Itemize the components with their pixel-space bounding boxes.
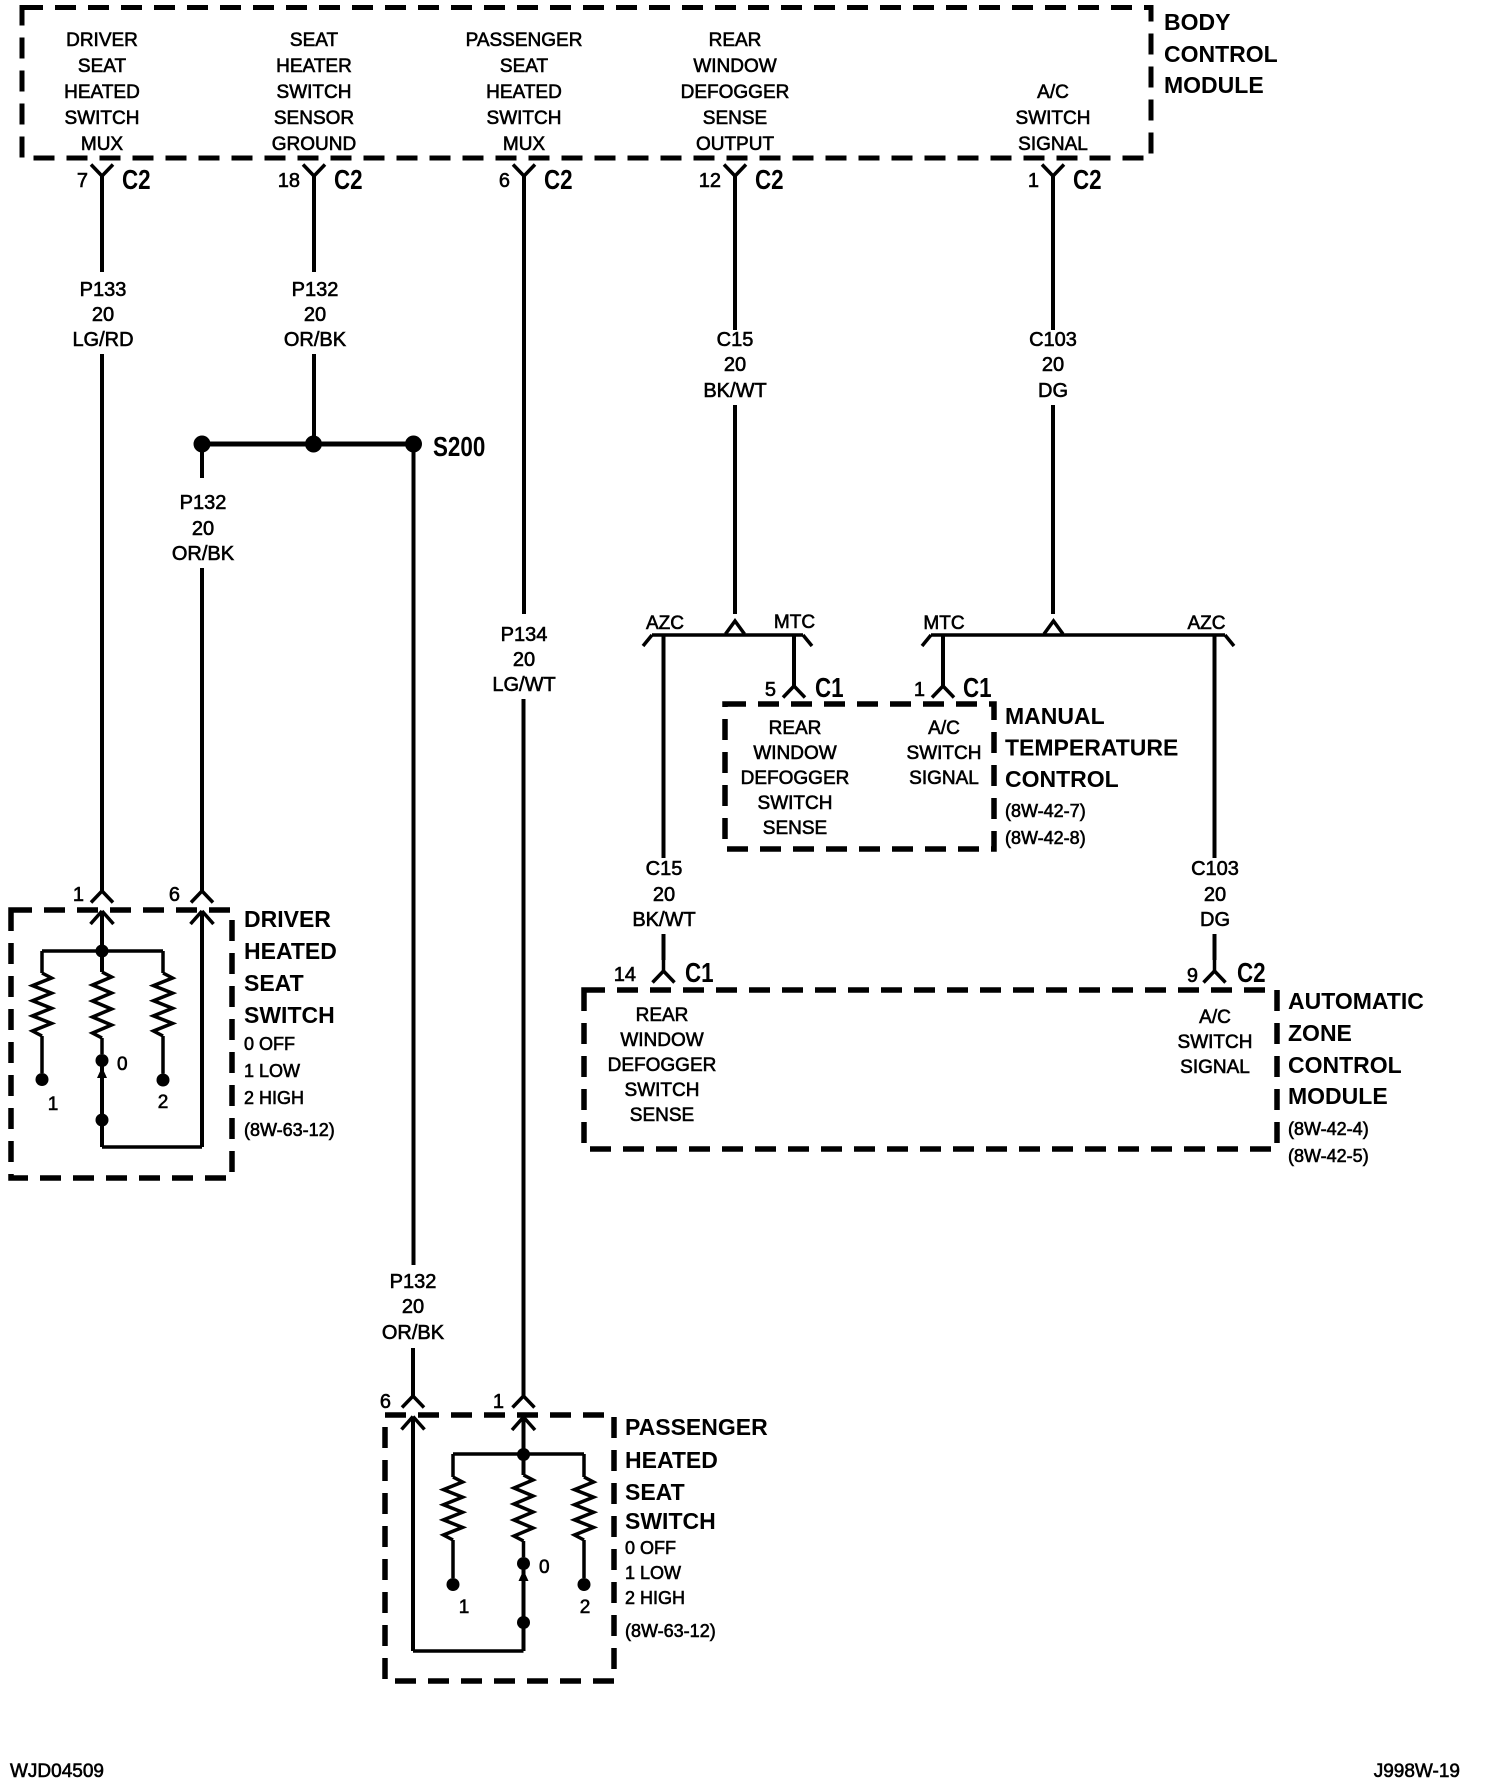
wire: driver middle branch drop — [100, 951, 104, 972]
svg-text:PASSENGER: PASSENGER — [466, 30, 583, 51]
svg-text:20: 20 — [1042, 354, 1064, 376]
wire: driver internal bus — [42, 949, 163, 953]
svg-text:OR/BK: OR/BK — [172, 543, 235, 565]
svg-text:0: 0 — [539, 1557, 550, 1578]
resistor: driver HIGH (position 2) — [154, 973, 173, 1036]
wire P133 lower segment (label to driver switch pin 1) — [100, 354, 104, 891]
svg-text:HEATER: HEATER — [276, 56, 352, 77]
svg-text:REAR: REAR — [769, 718, 822, 739]
splice S200 bus wire — [202, 442, 414, 447]
wire C15 segment (label to AZC/MTC split) — [733, 405, 737, 614]
wire: driver left resistor lead — [40, 1036, 44, 1073]
node: driver wiper lower junction — [96, 1114, 109, 1127]
svg-text:1 LOW: 1 LOW — [244, 1061, 300, 1081]
svg-text:A/C: A/C — [1037, 82, 1069, 103]
svg-text:SIGNAL: SIGNAL — [1180, 1057, 1250, 1078]
wire: passenger wiper to lower node — [522, 1563, 526, 1622]
svg-text:1 LOW: 1 LOW — [625, 1563, 681, 1583]
svg-text:DEFOGGER: DEFOGGER — [608, 1055, 717, 1076]
svg-text:(8W-42-8): (8W-42-8) — [1005, 828, 1086, 848]
svg-text:ZONE: ZONE — [1288, 1020, 1352, 1046]
svg-text:P133: P133 — [80, 279, 127, 301]
connector C2 pin 9 (AZC module) — [1213, 960, 1217, 971]
svg-text:C2: C2 — [122, 165, 151, 196]
svg-text:SWITCH: SWITCH — [625, 1508, 716, 1534]
wire C103 segment (label to MTC/AZC split) — [1051, 405, 1055, 614]
wire segment to AZC connector C1 pin 14 — [662, 934, 666, 960]
connector C2 pin 12 (BCM) — [724, 165, 735, 177]
wire: driver lower node to return bus — [100, 1120, 104, 1147]
svg-text:P132: P132 — [292, 279, 339, 301]
svg-text:(8W-63-12): (8W-63-12) — [625, 1621, 716, 1641]
wire: passenger return bus to pin 6 — [413, 1649, 524, 1653]
svg-text:WINDOW: WINDOW — [753, 743, 836, 764]
resistor: passenger LOW (position 1) — [444, 1477, 463, 1540]
svg-text:C103: C103 — [1029, 329, 1077, 351]
svg-text:P132: P132 — [390, 1271, 437, 1293]
svg-text:6: 6 — [169, 884, 180, 906]
branch split symbol (A/C switch signal MTC/AZC) — [1044, 621, 1063, 634]
svg-text:SWITCH: SWITCH — [244, 1002, 335, 1028]
svg-text:SWITCH: SWITCH — [1178, 1032, 1253, 1053]
contact node 1 (passenger) — [447, 1578, 460, 1591]
svg-text:BK/WT: BK/WT — [632, 909, 695, 931]
svg-text:5: 5 — [765, 679, 776, 701]
svg-text:BK/WT: BK/WT — [703, 380, 766, 402]
svg-text:C103: C103 — [1191, 858, 1239, 880]
svg-text:0 OFF: 0 OFF — [625, 1538, 676, 1558]
switch S1: DRIVER HEATED SEAT SWITCH dashed box — [11, 910, 232, 1178]
svg-text:S200: S200 — [433, 432, 485, 463]
svg-text:(8W-63-12): (8W-63-12) — [244, 1120, 335, 1140]
svg-text:DG: DG — [1038, 380, 1068, 402]
svg-text:WINDOW: WINDOW — [693, 56, 776, 77]
svg-text:MODULE: MODULE — [1164, 72, 1264, 98]
passenger switch pin 1 connector (fork and entry arrow) — [513, 1396, 524, 1408]
svg-text:0: 0 — [117, 1054, 128, 1075]
svg-text:(8W-42-4): (8W-42-4) — [1288, 1119, 1369, 1139]
connector C1 pin 5 (manual temperature control) — [783, 686, 794, 698]
svg-text:18: 18 — [278, 170, 300, 192]
svg-text:TEMPERATURE: TEMPERATURE — [1005, 735, 1178, 761]
svg-text:20: 20 — [192, 518, 214, 540]
wire AZC branch down (C15 to AZC module) — [662, 635, 666, 858]
svg-text:REAR: REAR — [636, 1005, 689, 1026]
wire P133 upper segment (BCM pin7 to label) — [100, 176, 104, 272]
svg-text:20: 20 — [92, 304, 114, 326]
svg-text:OUTPUT: OUTPUT — [696, 134, 775, 155]
svg-text:GROUND: GROUND — [272, 134, 356, 155]
svg-text:SWITCH: SWITCH — [487, 108, 562, 129]
wiper arrow (driver) — [97, 1067, 107, 1078]
contact node 0 (passenger) — [517, 1557, 530, 1570]
svg-text:C15: C15 — [717, 329, 754, 351]
svg-text:REAR: REAR — [709, 30, 762, 51]
splice node S200 right dot — [405, 436, 422, 453]
svg-text:MTC: MTC — [923, 613, 964, 634]
svg-text:6: 6 — [499, 170, 510, 192]
wire: driver right resistor lead — [161, 1036, 165, 1074]
svg-text:0 OFF: 0 OFF — [244, 1034, 295, 1054]
wire: passenger middle branch drop — [522, 1454, 526, 1475]
svg-text:A/C: A/C — [928, 718, 960, 739]
wiper arrow (passenger) — [519, 1570, 529, 1581]
wire: driver pin 6 drop — [200, 911, 204, 1147]
svg-text:AZC: AZC — [646, 613, 684, 634]
connector C1 pin 1 (manual temperature control) — [932, 686, 943, 698]
svg-text:HEATED: HEATED — [486, 82, 562, 103]
svg-text:1: 1 — [73, 884, 84, 906]
module U3: AUTOMATIC ZONE CONTROL MODULE dashed box — [584, 990, 1277, 1149]
wire: driver right branch drop — [161, 951, 165, 973]
driver switch pin 1 connector (fork and entry arrow) — [91, 891, 102, 903]
svg-text:SIGNAL: SIGNAL — [909, 768, 979, 789]
svg-text:WJD04509: WJD04509 — [10, 1761, 104, 1782]
svg-text:HEATED: HEATED — [64, 82, 140, 103]
resistor: passenger OFF (position 0) — [514, 1475, 533, 1541]
contact node 1 (driver) — [36, 1073, 49, 1086]
connector C2 pin 18 (BCM) — [303, 165, 314, 177]
svg-text:14: 14 — [614, 964, 636, 986]
svg-text:7: 7 — [77, 170, 88, 192]
svg-text:WINDOW: WINDOW — [620, 1030, 703, 1051]
wire: driver pin 1 to internal node — [100, 911, 104, 951]
svg-text:1: 1 — [914, 679, 925, 701]
svg-text:2 HIGH: 2 HIGH — [244, 1088, 304, 1108]
svg-text:BODY: BODY — [1164, 9, 1230, 35]
svg-text:CONTROL: CONTROL — [1288, 1052, 1402, 1078]
svg-text:P134: P134 — [501, 624, 548, 646]
wire C15 upper segment (BCM pin12 to label) — [733, 176, 737, 330]
svg-text:DG: DG — [1200, 909, 1230, 931]
wire: driver wiper to lower node — [100, 1060, 104, 1120]
svg-text:DRIVER: DRIVER — [244, 906, 331, 932]
svg-text:SEAT: SEAT — [78, 56, 127, 77]
module U1: BODY CONTROL MODULE dashed box — [22, 8, 1151, 159]
svg-text:SENSE: SENSE — [630, 1105, 694, 1126]
svg-text:SENSOR: SENSOR — [274, 108, 354, 129]
svg-text:OR/BK: OR/BK — [284, 329, 347, 351]
svg-text:C2: C2 — [1237, 958, 1266, 989]
contact node 2 (driver) — [157, 1074, 170, 1087]
wire: passenger left resistor lead — [451, 1540, 455, 1578]
svg-text:(8W-42-7): (8W-42-7) — [1005, 801, 1086, 821]
svg-text:1: 1 — [48, 1094, 59, 1115]
wire stub below S200 left dot — [200, 444, 204, 478]
wire P132 segment (label to passenger switch pin 6) — [411, 1348, 415, 1396]
connector C2 pin 6 (BCM) — [513, 165, 524, 177]
svg-text:MTC: MTC — [774, 612, 815, 633]
svg-text:DEFOGGER: DEFOGGER — [741, 768, 850, 789]
wire C103 upper segment (BCM pin1 to label) — [1051, 176, 1055, 330]
svg-text:MODULE: MODULE — [1288, 1083, 1388, 1109]
wire: passenger lower node to return bus — [522, 1622, 526, 1651]
splice node S200 left dot — [194, 436, 211, 453]
svg-text:DEFOGGER: DEFOGGER — [681, 82, 790, 103]
wire: driver middle resistor lead — [100, 1038, 104, 1054]
svg-text:PASSENGER: PASSENGER — [625, 1414, 768, 1440]
splice node S200 middle dot — [305, 436, 322, 453]
svg-text:MUX: MUX — [503, 134, 546, 155]
resistor: driver OFF (position 0) — [93, 972, 112, 1038]
svg-text:SENSE: SENSE — [763, 818, 827, 839]
svg-text:20: 20 — [653, 884, 675, 906]
svg-text:SENSE: SENSE — [703, 108, 767, 129]
svg-text:20: 20 — [304, 304, 326, 326]
contact node 2 (passenger) — [578, 1578, 591, 1591]
switch S2: PASSENGER HEATED SEAT SWITCH dashed box — [385, 1415, 614, 1681]
resistor: passenger HIGH (position 2) — [575, 1477, 594, 1540]
wire: passenger left branch drop — [451, 1454, 455, 1477]
svg-text:(8W-42-5): (8W-42-5) — [1288, 1146, 1369, 1166]
wire: driver return bus to pin 6 — [102, 1145, 202, 1149]
svg-text:1: 1 — [1028, 170, 1039, 192]
wire: passenger pin 1 to internal node — [522, 1417, 526, 1454]
svg-text:1: 1 — [493, 1391, 504, 1413]
svg-text:20: 20 — [1204, 884, 1226, 906]
wire MTC branch down (C15 to MTC) — [792, 635, 796, 686]
svg-text:2: 2 — [580, 1597, 591, 1618]
wire segment to AZC connector C2 pin 9 — [1213, 934, 1217, 960]
svg-text:MANUAL: MANUAL — [1005, 703, 1105, 729]
wire: passenger pin 6 drop — [411, 1417, 415, 1652]
wire P132 upper segment (BCM pin18 to label) — [312, 176, 316, 272]
wire: passenger right resistor lead — [582, 1540, 586, 1578]
module U2: MANUAL TEMPERATURE CONTROL dashed box — [725, 704, 994, 849]
svg-text:20: 20 — [402, 1296, 424, 1318]
svg-text:A/C: A/C — [1199, 1007, 1231, 1028]
svg-text:AUTOMATIC: AUTOMATIC — [1288, 988, 1424, 1014]
svg-text:SWITCH: SWITCH — [907, 743, 982, 764]
wire P132 long segment (S200 right dot down to label) — [412, 444, 416, 1265]
svg-text:SWITCH: SWITCH — [625, 1080, 700, 1101]
node: passenger wiper lower junction — [517, 1616, 530, 1629]
svg-text:12: 12 — [699, 170, 721, 192]
connector C1 pin 14 (AZC module) — [662, 960, 666, 971]
wire: passenger internal bus — [453, 1452, 584, 1456]
svg-text:LG/WT: LG/WT — [492, 674, 555, 696]
svg-text:SIGNAL: SIGNAL — [1018, 134, 1088, 155]
svg-text:9: 9 — [1187, 965, 1198, 987]
svg-text:C2: C2 — [334, 165, 363, 196]
wire MTC branch down (C103 to MTC) — [941, 635, 945, 686]
svg-text:C2: C2 — [1073, 165, 1102, 196]
svg-text:OR/BK: OR/BK — [382, 1322, 445, 1344]
svg-text:C2: C2 — [755, 165, 784, 196]
svg-text:MUX: MUX — [81, 134, 124, 155]
node: driver switch common junction — [96, 945, 109, 958]
svg-text:6: 6 — [380, 1391, 391, 1413]
svg-text:SEAT: SEAT — [625, 1479, 685, 1505]
wire P134 upper segment (BCM pin6 to label) — [522, 176, 526, 614]
svg-text:HEATED: HEATED — [244, 938, 337, 964]
svg-text:SWITCH: SWITCH — [65, 108, 140, 129]
svg-text:2 HIGH: 2 HIGH — [625, 1588, 685, 1608]
wire: driver left branch drop — [40, 951, 44, 973]
svg-text:P132: P132 — [180, 492, 227, 514]
svg-text:SWITCH: SWITCH — [277, 82, 352, 103]
svg-text:AZC: AZC — [1188, 613, 1226, 634]
svg-text:2: 2 — [158, 1092, 169, 1113]
svg-text:C15: C15 — [646, 858, 683, 880]
svg-text:SEAT: SEAT — [244, 970, 304, 996]
svg-text:20: 20 — [513, 649, 535, 671]
svg-text:C1: C1 — [963, 673, 992, 704]
connector C2 pin 7 (BCM) — [91, 165, 102, 177]
svg-text:CONTROL: CONTROL — [1164, 41, 1278, 67]
svg-text:C1: C1 — [815, 673, 844, 704]
svg-text:SEAT: SEAT — [500, 56, 549, 77]
wire P132 segment (label to driver switch pin 6) — [200, 568, 204, 891]
contact node 0 (driver) — [96, 1054, 109, 1067]
svg-text:C1: C1 — [685, 958, 714, 989]
wire: passenger middle resistor lead — [522, 1541, 526, 1557]
svg-text:J998W-19: J998W-19 — [1374, 1761, 1460, 1782]
svg-text:DRIVER: DRIVER — [66, 30, 138, 51]
svg-text:C2: C2 — [544, 165, 573, 196]
wire: passenger right branch drop — [582, 1454, 586, 1477]
svg-text:SWITCH: SWITCH — [1016, 108, 1091, 129]
svg-text:HEATED: HEATED — [625, 1447, 718, 1473]
resistor: driver LOW (position 1) — [33, 973, 52, 1036]
driver switch pin 6 connector (fork and entry arrow) — [191, 891, 202, 903]
wire P134 lower segment (label to passenger switch pin 1) — [522, 699, 526, 1396]
wire P132 segment (label to splice S200) — [312, 354, 316, 444]
svg-text:SEAT: SEAT — [290, 30, 339, 51]
svg-text:1: 1 — [459, 1597, 470, 1618]
svg-text:LG/RD: LG/RD — [72, 329, 133, 351]
passenger switch pin 6 connector (fork and entry arrow) — [402, 1396, 413, 1408]
svg-text:SWITCH: SWITCH — [758, 793, 833, 814]
wire AZC branch down (C103 to AZC module) — [1213, 635, 1217, 858]
branch split symbol (defogger sense AZC/MTC) — [726, 621, 745, 634]
node: passenger switch common junction — [517, 1448, 530, 1461]
svg-text:20: 20 — [724, 354, 746, 376]
connector C2 pin 1 (BCM) — [1042, 165, 1053, 177]
svg-text:CONTROL: CONTROL — [1005, 766, 1119, 792]
